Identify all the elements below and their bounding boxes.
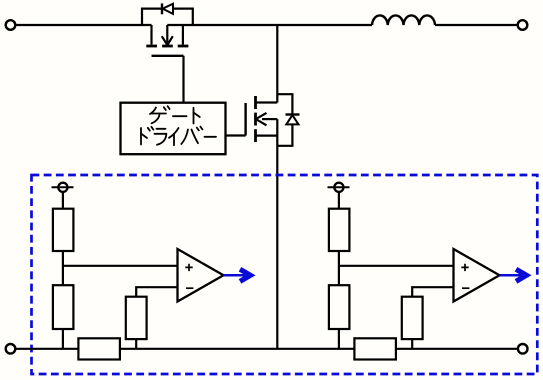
wire: top rail right segment (switch node to inductor) (167, 24, 372, 26)
wire: R8 to ground rail (411, 339, 413, 349)
gate driver box U1 (121, 103, 226, 155)
sense terminal TP5 (52, 183, 74, 192)
op-amp A1 (178, 249, 224, 302)
resistor R1 (53, 209, 74, 251)
input terminal TP1 (top-left) (6, 20, 16, 30)
wire: R8 to op-amp - input (412, 287, 453, 297)
wire: driver output to Q2 gate (226, 134, 246, 136)
resistor R2 (53, 285, 74, 329)
output terminal TP2 (top-right) (518, 20, 528, 30)
label: gate driver text line 1 (geeto) (150, 106, 200, 123)
output arrow (blue) (224, 269, 251, 281)
diode D1 (Q1 body diode) (142, 3, 193, 25)
transistor Q2 (low-side MOSFET) (246, 96, 278, 142)
wire: ground rail segment 2 (120, 348, 355, 350)
resistor R8 (402, 297, 423, 339)
wire: inductor to output terminal (435, 24, 518, 26)
resistor R5 (329, 209, 350, 251)
transistor Q1 (high-side MOSFET, rotated) (146, 25, 188, 56)
wire: node A to op-amp + input (63, 265, 178, 267)
wire: top rail left segment (16, 24, 152, 26)
resistor R3 (shunt, horizontal) (78, 338, 120, 359)
wire: Q2 source down to ground rail (276, 119, 278, 349)
ground terminal TP3 (bottom-left) (6, 344, 16, 354)
wire: ground rail segment 1 (16, 348, 79, 350)
diode D2 (Q2 body diode) (277, 94, 299, 146)
wire: Q1 gate to driver box (182, 56, 184, 103)
resistor R7 (shunt, horizontal) (354, 338, 396, 359)
wire: R6 to ground rail (338, 329, 340, 349)
wire: node B to op-amp + input (339, 265, 454, 267)
ground terminal TP4 (bottom-right) (518, 344, 528, 354)
measurement block box (blue dashed) (32, 175, 538, 374)
current sense amplifier block 1 (left) (52, 183, 251, 360)
wire: ground rail segment 3 (396, 348, 518, 350)
wire: switch node to Q2 drain (276, 25, 278, 103)
wire: terminal to R1 (62, 192, 64, 209)
sense terminal TP6 (328, 183, 350, 192)
output arrow (blue) (500, 269, 527, 281)
wire: R5 to R6 (node B) (338, 251, 340, 285)
inductor L1 (372, 15, 435, 25)
wire: R2 to ground rail (62, 329, 64, 349)
resistor R4 (126, 297, 147, 339)
op-amp A2 (454, 249, 500, 302)
wire: R4 to op-amp - input (136, 287, 177, 297)
label: gate driver text line 2 (doraibaa) (141, 127, 216, 146)
wire: R4 to ground rail (135, 339, 137, 349)
wire: terminal to R5 (338, 192, 340, 209)
resistor R6 (329, 285, 350, 329)
wire: R1 to R2 (node A) (62, 251, 64, 285)
current sense amplifier block 2 (right) (328, 183, 527, 360)
